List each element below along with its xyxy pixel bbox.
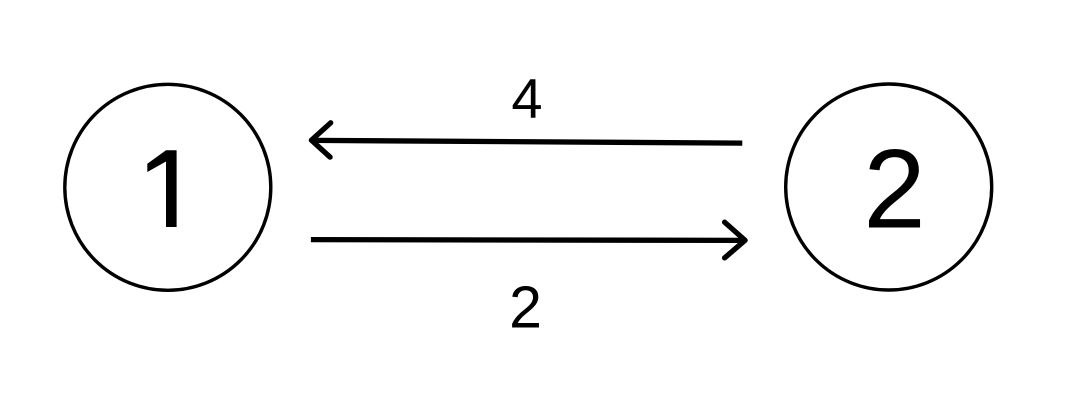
svg-text:2: 2 <box>863 127 925 252</box>
node 1 label "1" <box>147 150 176 227</box>
svg-text:4: 4 <box>511 67 542 130</box>
edge from node 1 to node 2: arrow line <box>311 237 743 243</box>
edge from node 2 to node 1: arrowhead <box>311 123 330 157</box>
svg-text:2: 2 <box>509 274 542 340</box>
edge from node 2 to node 1: arrow line <box>314 140 743 143</box>
node 1 circle <box>65 84 271 290</box>
node 2 circle <box>786 84 992 290</box>
edge from node 1 to node 2: arrowhead <box>725 222 746 258</box>
